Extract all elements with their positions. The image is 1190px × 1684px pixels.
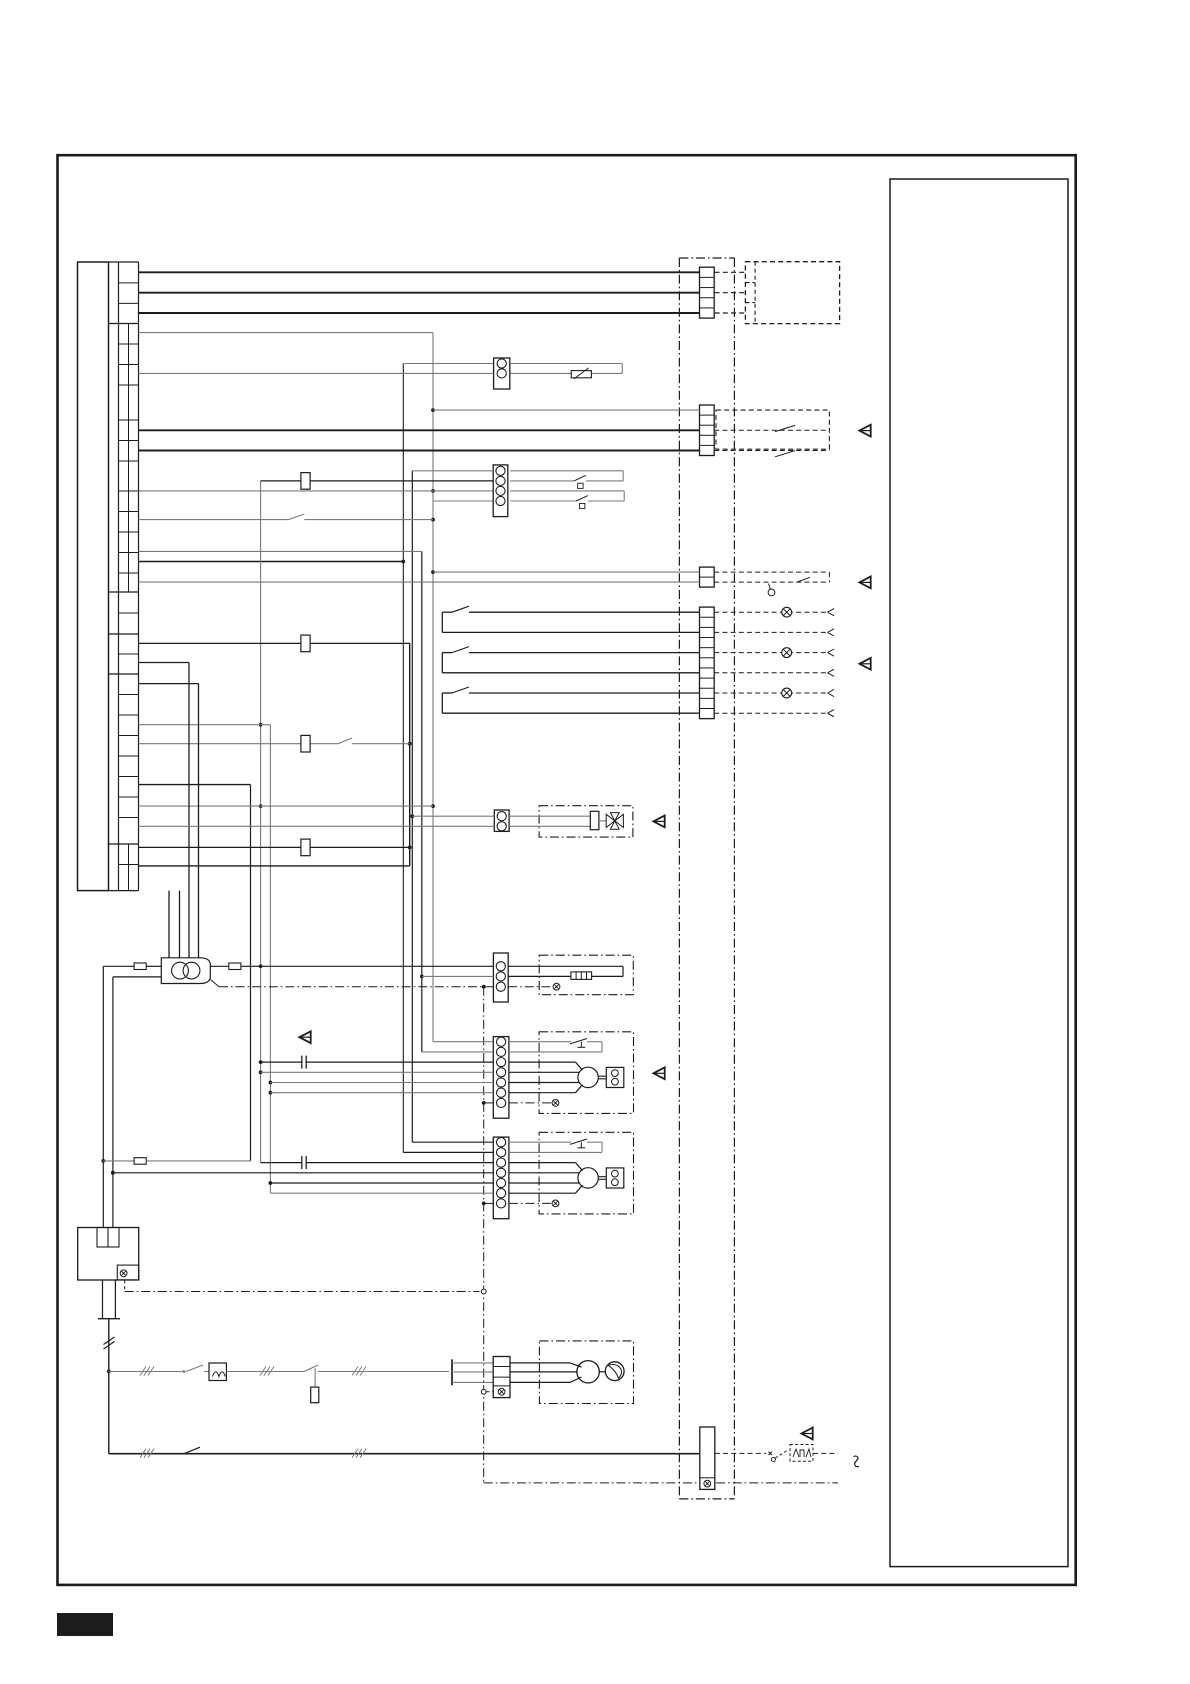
plug interface bar [451,1359,453,1385]
wire V6 to fan2 pin6 [270,1192,493,1194]
wire row ECU to V0 bottom [139,561,404,563]
wire row ECU to transformer left leg [139,663,190,958]
wire row ECU to V3 top [139,332,434,334]
control unit U1 terminal ladder [78,262,139,891]
solenoid valve Y1 [509,811,623,829]
wire V0 vertical [401,364,405,1153]
thermal cutout fan2 M2 [509,1139,602,1152]
solenoid valve Y1 module (dash-dot box) [539,806,633,837]
dashed tail X5 to crankcase switch [715,1445,838,1462]
wire row ECU to V4 [139,784,251,786]
control line with protector and coil [109,1363,449,1403]
high pressure switch loop [510,471,623,489]
wire row ECU to VL with fuse F5 [139,635,410,652]
wires bar to compressor connector [452,1363,493,1383]
compressor connector S5 (4-way) [493,1357,510,1398]
transformer T1 [161,958,210,984]
note triangle marker 1 [859,425,870,437]
thermal cutout fan1 M1 [509,1039,602,1052]
harness corridor dash-dot boundary [679,258,734,1499]
shield trunk dash-dot vertical [481,985,838,1483]
wire V3 vertical [431,333,435,1042]
note triangle marker 5 [653,1067,664,1079]
compressor motor M3 [510,1361,624,1383]
wire V0 to fan2 pin2 [403,1151,493,1153]
wire VL loop vertical [408,643,412,866]
wire row X3 pin1 (from V3) [433,571,700,573]
note triangle marker 3 [859,658,870,670]
connector X2 (5-way, to pressure switches) [700,405,715,456]
wire row V3 to S3 pin4 [433,500,493,502]
wire row ECU to VL with fuse F7 [139,839,410,856]
relay box K1 (dashed outline) [745,262,839,324]
wire ECU bottom legs to transformer [169,891,180,958]
connector fan1 M1 (7-way) [493,1037,509,1119]
wire V3 to fan1 pin1 [433,1041,493,1043]
crankcase heater loop 1 [442,606,699,632]
supply vertical left [101,966,105,1227]
wire row V1 to S3 pin1 [412,470,493,472]
connector X5 (bottom, with shield cell) [700,1427,715,1489]
dashed lead X2 pin3 with switch [714,425,829,431]
wire row ECU to X3 pin2 [139,581,700,583]
wire V1 to fan2 pin1 [412,1141,493,1143]
compressor shield lead [486,1391,493,1393]
wire V6 vertical [269,725,273,1193]
shield dash-dot from transformer [211,980,494,987]
fan motor fan2 M2 [509,1163,624,1194]
wire row ECU switch row with fuse F6 [139,735,410,752]
wire V6 to fan1 pin6 [270,1092,493,1094]
wire row ECU to X2 pin3 [139,429,700,431]
wire row ECU to S3 pin3 [139,490,494,492]
shield terminal fan1 M1 [484,1100,559,1107]
thermo switch dashed loop [714,572,829,596]
note triangle marker 7 [801,1428,812,1440]
wire V1 vertical [410,471,414,1142]
wire V4 vertical [250,785,252,1161]
connector S1 (2-way) [494,358,510,389]
wire V6 to fan2 pin5 [270,1182,493,1184]
wire TB1 down legs [98,1280,120,1319]
legend box (empty notes panel) [890,179,1068,1567]
shield terminal fan2 M2 [484,1200,559,1207]
TB1 shield lead dash-dot [125,1280,486,1294]
wire transformer left feed with fuse F1 [103,963,161,970]
wire row ECU to X2 pin5 [139,450,700,452]
supply vertical right [111,977,115,1228]
note triangle marker 4 [653,816,664,828]
black page tag bottom-left [57,1613,113,1636]
pressure switch box (dashed) [716,410,829,449]
shield terminal S2 [508,983,560,990]
wire row ECU to transformer right leg [139,684,199,958]
wire row ECU to VL bottom [139,865,410,867]
discharge thermistor RT2 [508,966,623,979]
wire S1 pin1 from V0 [403,363,493,365]
connector X4 (11-way, to lamps) [700,607,715,719]
fan motor fan1 M1 [509,1062,624,1093]
wire row X2 pin1 (from V3) [433,409,700,411]
relay box K1 inner compartment (dashed) [745,262,755,324]
wire V2 to S2 pin2 [422,975,493,977]
wire supply row with fuse F3 to V4 [103,1158,250,1165]
dashed lead X2 pin5 with switch [714,451,829,457]
wire row ECU to S1 pin2 [139,372,494,374]
wire V5 to fan2 pin3 with capacitor C2 [261,1156,494,1169]
wire transformer secondary with fuse F2 [210,963,493,970]
wire row 1 ECU to X1 pin1 [139,271,700,273]
supply main vertical [104,1319,115,1454]
connector X1 (5-way, to relay box) [700,267,715,318]
wire V1 to S4 pin1 [412,815,494,817]
fan module fan1 M1 box (dash-dot) [539,1032,633,1114]
wire row ECU to V6 [139,724,271,726]
connector S3 (4-way) [493,465,508,517]
connector S2 (3-way) [493,953,508,1002]
note triangle marker 2 [859,577,870,589]
wire V5 to fan1 pin3 with capacitor C1 [261,1056,494,1069]
wire row ECU to S4 pin2 [139,825,495,827]
connector fan2 M2 (7-way) [493,1137,509,1219]
wire transformer left lower feed [113,976,161,978]
wire V2 vertical [420,551,424,1052]
power line bottom [109,1447,700,1458]
wire row 2 ECU to X1 pin3 [139,292,700,294]
note triangle marker 6 [299,1031,310,1043]
wire row ECU dead-end at V3 [139,514,434,520]
wire V5 to fan1 pin4 [261,1071,494,1073]
indicator lamps H1-H3 dashed leads [714,607,834,717]
thermistor RT1 loop [510,364,622,379]
wire row V5 to S3 pin2 with fuse F4 [261,473,494,490]
wire V2 to fan1 pin2 [422,1051,494,1053]
dashed leads X1 to relay box [715,272,746,313]
wire row ECU 806 to V3 [139,805,434,807]
crankcase heater loop 3 [442,687,699,713]
fan module fan2 M2 box (dash-dot) [539,1132,633,1214]
wire V5 vertical [259,481,263,1163]
wire row ECU to V2 [139,550,422,552]
compressor module box (dash-dot) [539,1341,633,1404]
crankcase heater loop 2 [442,647,699,673]
squiggle mark [854,1456,859,1467]
wire supply to fan2 pin4 [111,1171,493,1175]
connector S4 (2-way) [494,810,509,831]
connector X3 (2-way, to thermo switch) [700,567,715,587]
wire row 3 ECU to X1 pin5 [139,312,700,314]
sensor module box (dash-dot) [539,955,633,995]
page border frame [58,155,1076,1585]
terminal block TB1 [78,1228,139,1281]
wire V6 to fan1 pin5 [270,1082,493,1084]
low pressure switch loop [510,491,624,509]
